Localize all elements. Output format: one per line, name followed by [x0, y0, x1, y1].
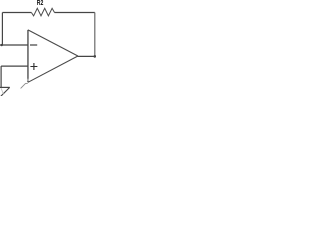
wire top-right horizontal segment from resistor [55, 12, 95, 14]
wire output horizontal [78, 55, 96, 57]
ground symbol top bar [0, 86, 10, 88]
op-amp U1 top edge [28, 30, 78, 56]
wire top-left horizontal segment to resistor [2, 12, 31, 14]
arrowhead annotation near op-amp lower left [21, 84, 28, 89]
op-amp inverting input minus sign [30, 44, 37, 46]
wire left feedback vertical [1, 13, 3, 46]
op-amp non-inverting input plus sign [30, 63, 37, 70]
op-amp U1 left edge gap joiner faint [27, 79, 29, 81]
ground symbol left edge faint [1, 88, 4, 95]
ground symbol right diagonal [1, 87, 10, 96]
op-amp U1 left edge upper [27, 30, 29, 79]
wire non-inverting input horizontal [1, 65, 28, 67]
resistor R2 zigzag [31, 8, 54, 16]
wire inverting input horizontal [0, 44, 28, 46]
svg-text:R2: R2 [37, 0, 44, 7]
op-amp U1 bottom edge [28, 56, 78, 82]
op-amp U1 left edge lower [27, 81, 29, 82]
wire ground vertical drop [0, 66, 2, 87]
wire right feedback vertical [94, 13, 96, 57]
node junction dot at inverting input [1, 44, 3, 46]
node junction dot at output feedback [94, 55, 97, 58]
